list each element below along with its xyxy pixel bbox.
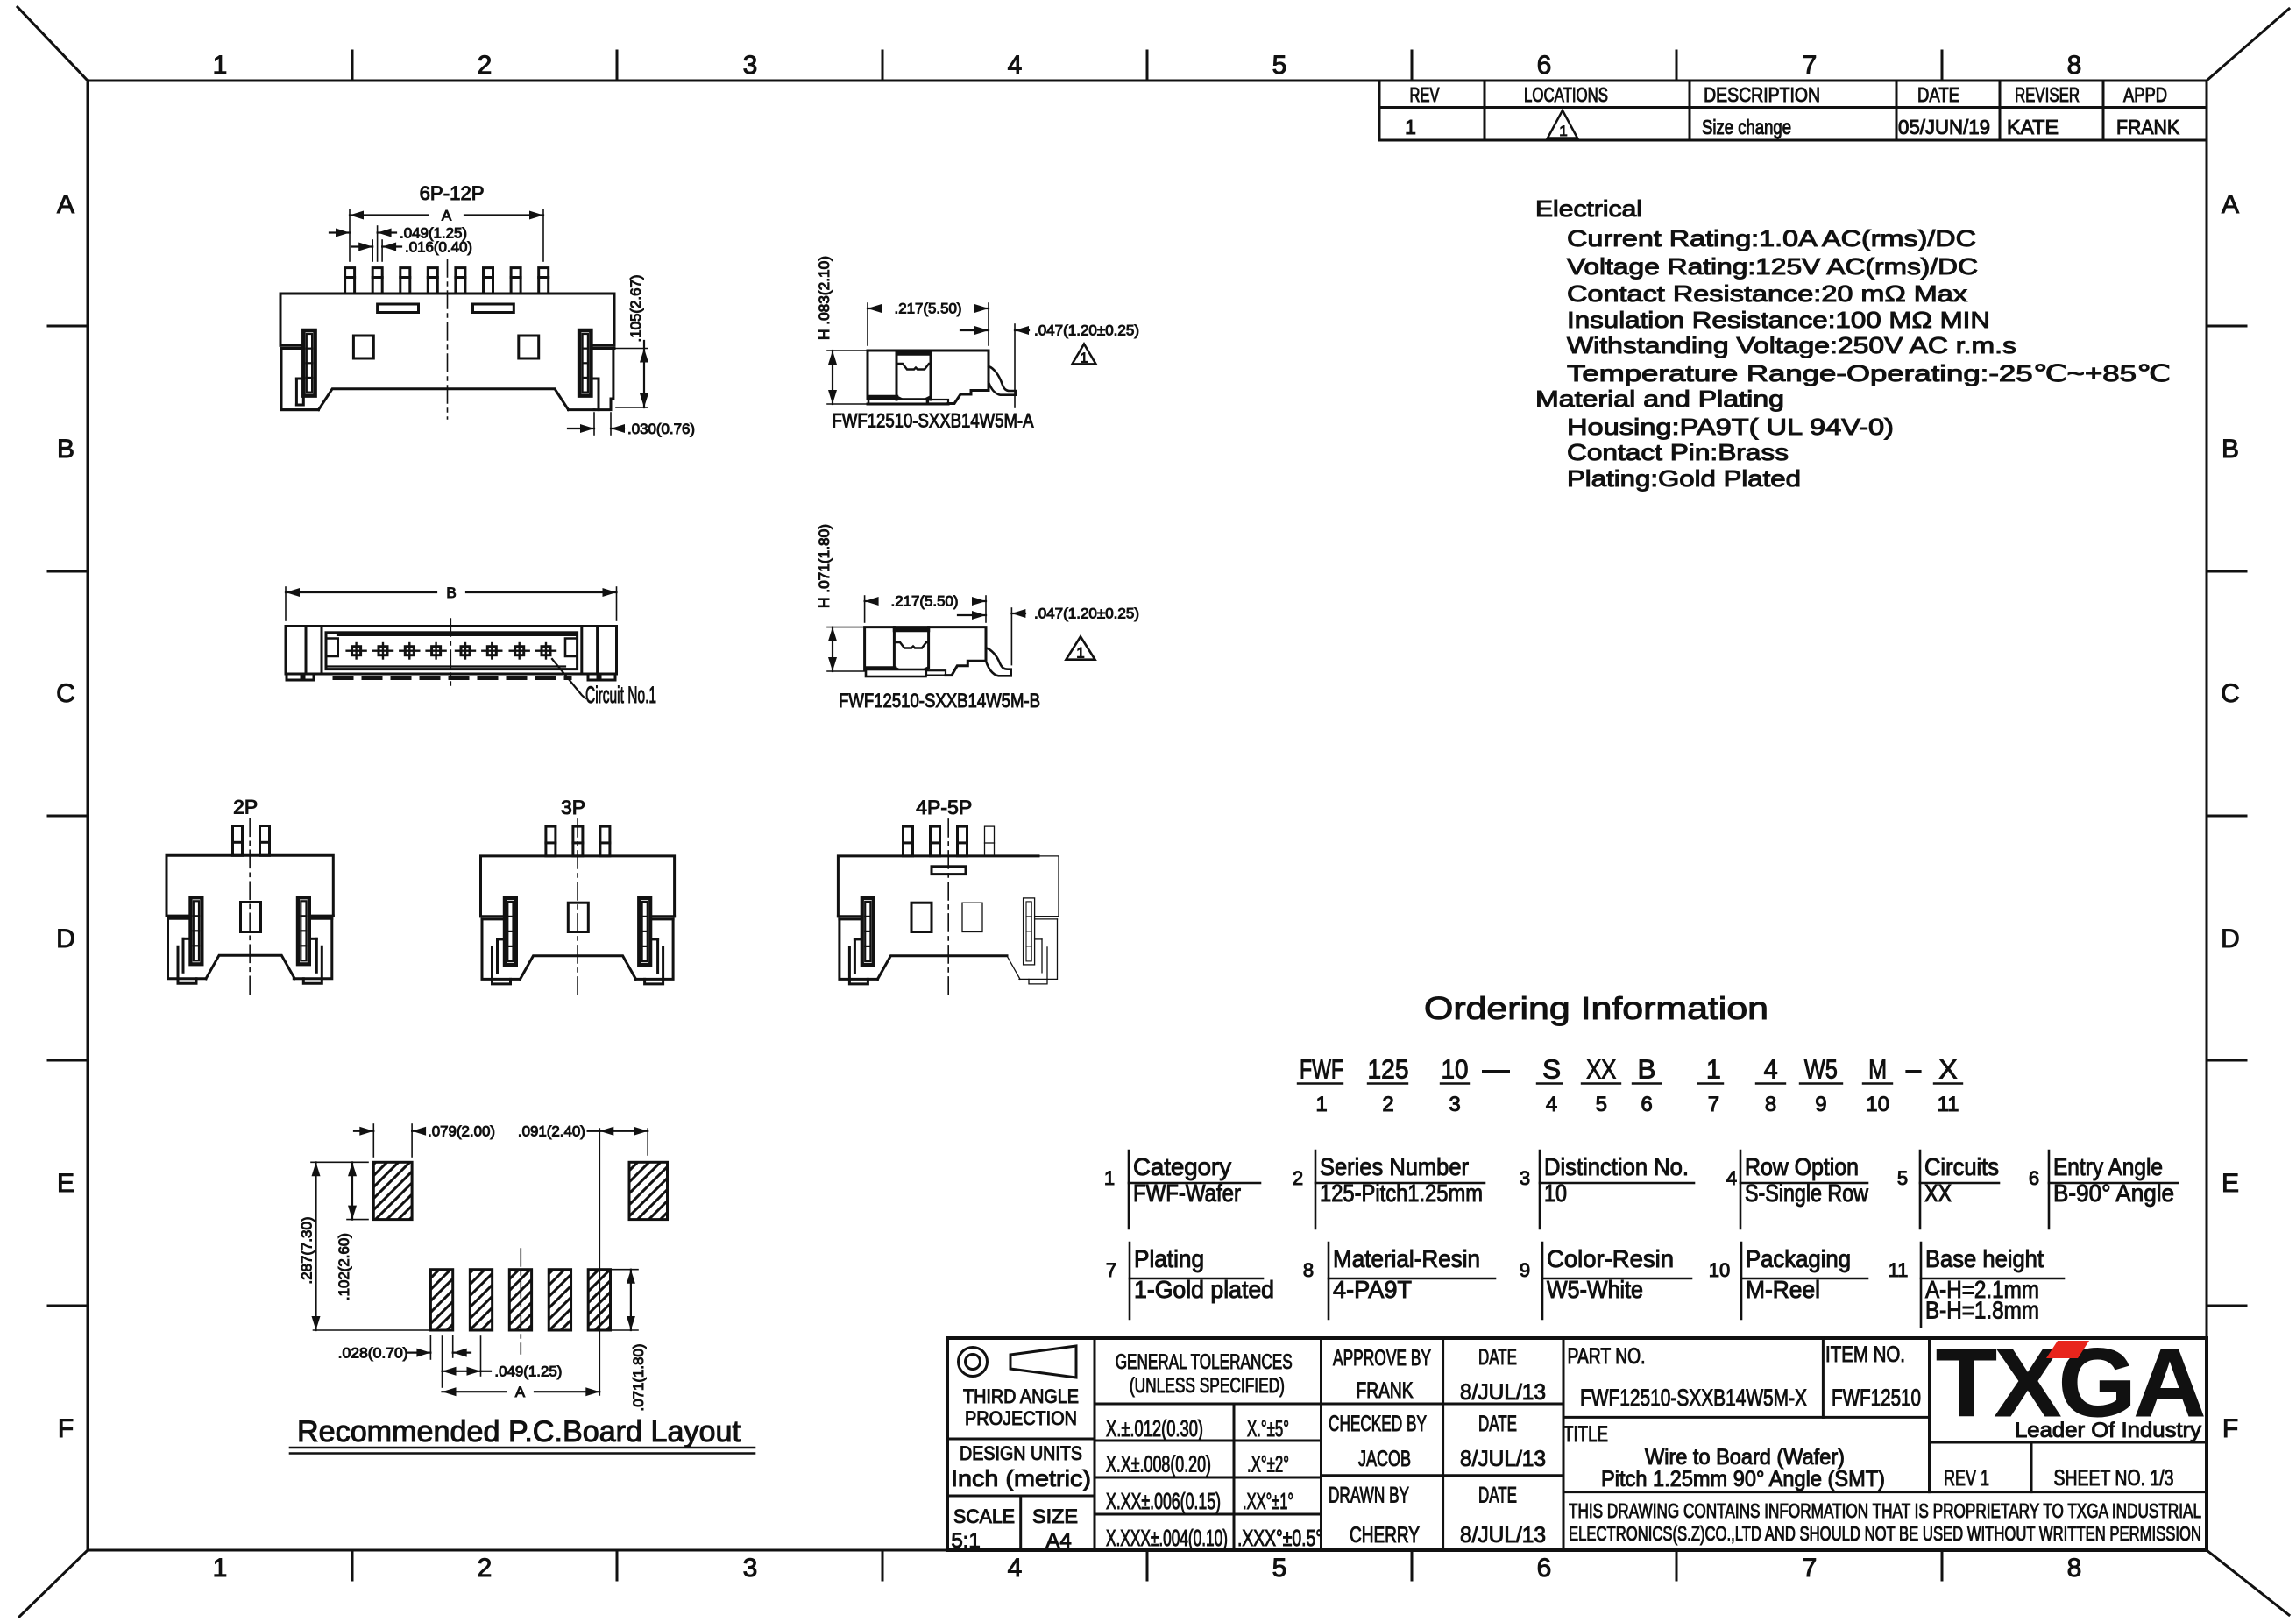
front view 4P-5P right latch strip	[1024, 898, 1035, 965]
side view A body outline	[868, 351, 989, 400]
svg-text:DATE: DATE	[1478, 1412, 1517, 1436]
svg-text:Contact Resistance:20 mΩ Max: Contact Resistance:20 mΩ Max	[1567, 280, 1967, 307]
front view right latch strip	[579, 330, 591, 396]
svg-text:FWF12510-SXXB14W5M-A: FWF12510-SXXB14W5M-A	[833, 410, 1034, 432]
svg-text:10: 10	[1544, 1179, 1567, 1207]
front view 4P-5P pin 1	[904, 826, 913, 856]
pcb layout small pad 2	[470, 1270, 492, 1330]
corner diagonal top-left	[18, 7, 88, 81]
svg-text:TITLE: TITLE	[1563, 1422, 1608, 1447]
svg-text:—: —	[1483, 1054, 1510, 1085]
svg-text:X.X±.008(0.20): X.X±.008(0.20)	[1106, 1450, 1211, 1477]
front view 4P-5P bottom trapezoid	[877, 956, 1007, 980]
svg-text:7: 7	[1708, 1093, 1719, 1116]
svg-text:(UNLESS SPECIFIED): (UNLESS SPECIFIED)	[1130, 1374, 1285, 1398]
svg-text:C: C	[2221, 679, 2240, 708]
zone ticks bottom	[351, 1550, 354, 1580]
svg-text:KATE: KATE	[2007, 116, 2059, 138]
svg-text:.016(0.40): .016(0.40)	[405, 239, 472, 256]
side view B warning triangle 1	[1067, 637, 1095, 660]
svg-text:B: B	[57, 435, 74, 464]
svg-text:Ordering Information: Ordering Information	[1424, 990, 1768, 1026]
svg-text:B: B	[1638, 1054, 1656, 1085]
front view 3P left lower block	[482, 919, 521, 980]
svg-text:.030(0.76): .030(0.76)	[627, 421, 695, 437]
svg-text:Packaging: Packaging	[1746, 1245, 1851, 1272]
bottom view B dim extensions	[285, 587, 287, 620]
svg-text:05/JUN/19: 05/JUN/19	[1898, 116, 1990, 138]
svg-text:A: A	[442, 208, 452, 224]
front view 2P left lower block	[168, 918, 207, 979]
front view 4P-5P body outline	[838, 856, 1038, 917]
svg-text:8/JUL/13: 8/JUL/13	[1460, 1523, 1546, 1548]
svg-text:DATE: DATE	[1478, 1484, 1517, 1508]
front view 2P pin 1	[233, 826, 243, 856]
pin 7	[511, 268, 521, 294]
svg-text:–: –	[1906, 1054, 1922, 1085]
svg-text:10: 10	[1866, 1093, 1889, 1116]
svg-text:.217(5.50): .217(5.50)	[891, 593, 959, 610]
title block horizontal dividers	[1095, 1403, 1563, 1406]
side view B dim .217(5.50)	[865, 600, 876, 602]
pcb dim .071(1.80)	[611, 1269, 638, 1271]
svg-text:Current Rating:1.0A AC(rms)/DC: Current Rating:1.0A AC(rms)/DC	[1567, 225, 1976, 251]
pin 3	[400, 268, 410, 294]
svg-text:2P: 2P	[233, 796, 258, 818]
svg-text:Leader Of Industry: Leader Of Industry	[2015, 1419, 2201, 1442]
side view B dim second arrow	[958, 614, 986, 616]
front view 3P square hole	[568, 903, 588, 931]
svg-text:SHEET NO. 1/3: SHEET NO. 1/3	[2054, 1466, 2174, 1491]
pcb dim .102(2.60)	[347, 1219, 368, 1221]
front view 3P pin 1	[546, 826, 556, 856]
svg-text:C: C	[56, 679, 75, 708]
front view left latch strip	[303, 330, 315, 396]
svg-text:1: 1	[1104, 1167, 1115, 1189]
svg-text:E: E	[2222, 1169, 2239, 1198]
circuit pin 3 cross	[405, 647, 414, 655]
front view 3P right latch strip	[639, 898, 650, 965]
svg-text:1: 1	[1076, 645, 1084, 662]
svg-text:M: M	[1868, 1054, 1887, 1085]
front view body outline	[280, 294, 614, 345]
svg-text:125: 125	[1368, 1054, 1409, 1085]
pcb layout small pad 1	[430, 1270, 452, 1330]
svg-text:FRANK: FRANK	[1357, 1378, 1414, 1403]
svg-text:Housing:PA9T( UL 94V-0): Housing:PA9T( UL 94V-0)	[1567, 414, 1894, 440]
front view 2P body outline	[167, 855, 333, 916]
svg-text:DATE: DATE	[1917, 83, 1959, 106]
svg-text:D: D	[2221, 924, 2240, 953]
svg-text:11: 11	[1938, 1093, 1959, 1116]
svg-text:1: 1	[1081, 351, 1088, 366]
svg-text:W5: W5	[1804, 1054, 1838, 1085]
svg-text:7: 7	[1803, 1554, 1818, 1583]
svg-text:5: 5	[1596, 1093, 1607, 1116]
front view 3P centerline	[577, 819, 578, 996]
svg-text:H .083(2.10): H .083(2.10)	[816, 256, 833, 340]
front view 4P-5P square hole	[911, 903, 932, 931]
svg-text:Plating:Gold Plated: Plating:Gold Plated	[1567, 465, 1801, 492]
svg-text:XX: XX	[1924, 1179, 1952, 1207]
side view A dim H .083(2.10)	[827, 350, 868, 351]
pcb layout centerline	[520, 1249, 521, 1354]
front view 2P right lower block	[294, 918, 332, 979]
front view 2P ledge lines	[167, 915, 190, 917]
svg-text:FWF12510: FWF12510	[1832, 1385, 1921, 1411]
side view A dim .047(1.20±0.25)	[1014, 324, 1016, 407]
svg-text:10: 10	[1709, 1259, 1730, 1281]
dimension .030(0.76) extensions	[593, 413, 595, 435]
side view A dim .217(5.50) extensions	[867, 303, 868, 345]
svg-text:FWF-Wafer: FWF-Wafer	[1133, 1179, 1241, 1207]
svg-text:4: 4	[1546, 1093, 1557, 1116]
svg-text:REV 1: REV 1	[1944, 1466, 1989, 1491]
bottom view B circuit leader	[552, 659, 585, 698]
svg-text:A: A	[57, 190, 74, 219]
svg-text:DESCRIPTION: DESCRIPTION	[1704, 83, 1820, 106]
front view 4P-5P centerline	[947, 819, 949, 996]
dimension .049(1.25) extension	[377, 226, 379, 261]
side view B bent lead	[986, 648, 1011, 676]
front view 2P right latch strip	[298, 897, 309, 964]
zone ticks right	[2207, 325, 2246, 328]
svg-text:FWF12510-SXXB14W5M-B: FWF12510-SXXB14W5M-B	[839, 690, 1040, 712]
bottom view B outer body	[286, 627, 617, 675]
svg-text:FWF: FWF	[1300, 1054, 1343, 1085]
svg-text:4: 4	[1008, 51, 1023, 80]
svg-text:8/JUL/13: 8/JUL/13	[1460, 1380, 1546, 1405]
bottom view B feet	[287, 674, 301, 680]
svg-text:X.±.012(0.30): X.±.012(0.30)	[1106, 1415, 1203, 1441]
svg-text:Material-Resin: Material-Resin	[1333, 1245, 1480, 1272]
svg-text:6: 6	[1537, 1554, 1552, 1583]
side view A dim .217(5.50)	[868, 308, 880, 309]
svg-text:10: 10	[1442, 1054, 1469, 1085]
svg-text:.287(7.30): .287(7.30)	[299, 1217, 315, 1285]
dimension A	[350, 214, 428, 216]
svg-text:Wire to Board (Wafer): Wire to Board (Wafer)	[1645, 1445, 1845, 1470]
svg-text:.091(2.40): .091(2.40)	[518, 1123, 585, 1140]
front view 4P-5P left latch strip	[862, 898, 874, 965]
svg-text:ITEM NO.: ITEM NO.	[1825, 1342, 1905, 1367]
pcb dim .079(2.00)	[354, 1130, 373, 1132]
svg-text:1: 1	[213, 51, 228, 80]
svg-text:A4: A4	[1045, 1529, 1071, 1553]
svg-text:Color-Resin: Color-Resin	[1547, 1245, 1674, 1272]
svg-text:DESIGN UNITS: DESIGN UNITS	[960, 1442, 1082, 1464]
svg-text:CHERRY: CHERRY	[1350, 1523, 1420, 1548]
svg-text:8/JUL/13: 8/JUL/13	[1460, 1447, 1546, 1471]
svg-text:APPROVE BY: APPROVE BY	[1333, 1346, 1431, 1371]
pcb dim .049(1.25)	[442, 1336, 443, 1387]
svg-text:PROJECTION: PROJECTION	[965, 1407, 1077, 1429]
svg-text:.047(1.20±0.25): .047(1.20±0.25)	[1034, 322, 1139, 339]
circuit pin 8 cross	[542, 647, 550, 655]
corner diagonal bottom-left	[19, 1550, 88, 1617]
svg-text:Base height: Base height	[1925, 1245, 2044, 1272]
svg-text:PART NO.: PART NO.	[1568, 1344, 1646, 1369]
front view right lower block	[611, 349, 613, 400]
front view 3P pin 2	[573, 826, 583, 856]
corner diagonal bottom-right	[2207, 1550, 2289, 1615]
svg-text:.X°±2°: .X°±2°	[1247, 1450, 1289, 1477]
pcb layout small pad 4	[549, 1270, 570, 1330]
svg-text:DRAWN BY: DRAWN BY	[1329, 1484, 1409, 1508]
svg-text:5: 5	[1272, 1554, 1287, 1583]
svg-text:SIZE: SIZE	[1032, 1505, 1078, 1527]
svg-text:Insulation Resistance:100 MΩ M: Insulation Resistance:100 MΩ MIN	[1567, 307, 1990, 333]
svg-text:Circuits: Circuits	[1924, 1153, 1999, 1180]
front view 3P left latch strip	[505, 898, 516, 965]
circuit pin 5 cross	[461, 647, 470, 655]
pin 5	[456, 268, 465, 294]
svg-text:7: 7	[1106, 1259, 1116, 1281]
bottom view B cavity right step	[565, 639, 578, 657]
side view B dim .217(5.50) extensions	[864, 596, 866, 622]
pcb dim .287(7.30)	[311, 1161, 368, 1163]
svg-text:2: 2	[478, 1554, 493, 1583]
svg-text:M-Reel: M-Reel	[1746, 1276, 1820, 1303]
svg-text:.071(1.80): .071(1.80)	[630, 1344, 647, 1412]
svg-text:.217(5.50): .217(5.50)	[895, 301, 962, 317]
svg-text:FWF12510-SXXB14W5M-X: FWF12510-SXXB14W5M-X	[1580, 1385, 1807, 1411]
svg-text:4: 4	[1726, 1167, 1737, 1189]
svg-text:X.XXX±.004(0.10): X.XXX±.004(0.10)	[1106, 1525, 1228, 1551]
svg-text:.079(2.00): .079(2.00)	[428, 1123, 495, 1140]
svg-text:4: 4	[1008, 1554, 1023, 1583]
dimension .105(2.67) extensions	[616, 348, 648, 350]
bottom view B bottom dashed strip	[335, 676, 570, 680]
svg-text:Size change: Size change	[1702, 116, 1791, 138]
circuit pin 7 cross	[515, 647, 524, 655]
corner diagonal top-right	[2207, 9, 2289, 81]
front view 4P-5P right lower block	[1019, 919, 1058, 980]
third angle projection symbol cone	[1010, 1346, 1076, 1378]
dimension .030(0.76)	[568, 428, 594, 429]
front view left lower block	[281, 349, 319, 410]
svg-text:Voltage Rating:125V AC(rms)/DC: Voltage Rating:125V AC(rms)/DC	[1567, 253, 1978, 280]
zone ticks top	[351, 51, 354, 81]
pin 6	[484, 268, 493, 294]
front view 3P body outline	[481, 856, 675, 917]
svg-text:A: A	[2222, 190, 2239, 219]
front view 2P square hole	[241, 903, 261, 932]
svg-text:.XXX°±0.5°: .XXX°±0.5°	[1237, 1525, 1322, 1551]
svg-text:Withstanding Voltage:250V AC r: Withstanding Voltage:250V AC r.m.s	[1567, 332, 2016, 358]
third angle projection symbol circle	[959, 1348, 988, 1377]
bottom view B cavity	[326, 633, 578, 669]
side view A terminal cavity	[896, 351, 898, 400]
side view B body outline	[865, 627, 986, 669]
svg-text:Electrical: Electrical	[1535, 195, 1642, 222]
svg-text:3: 3	[1449, 1093, 1460, 1116]
svg-text:1: 1	[1706, 1054, 1721, 1085]
front view 4P-5P pin 3	[958, 826, 967, 856]
svg-text:F: F	[2222, 1414, 2238, 1443]
dimension .016(0.40)	[352, 245, 372, 247]
svg-text:E: E	[57, 1169, 74, 1198]
svg-text:B-H=1.8mm: B-H=1.8mm	[1925, 1297, 2039, 1324]
pcb layout right big pad	[629, 1162, 668, 1219]
front view 3P pin 3	[600, 826, 610, 856]
revision row 1 - location warning triangle 1	[1548, 110, 1577, 138]
svg-text:THIRD ANGLE: THIRD ANGLE	[963, 1385, 1079, 1407]
svg-text:3P: 3P	[561, 797, 585, 818]
front view 2P centerline	[249, 818, 251, 995]
front view top slot right	[473, 304, 514, 313]
svg-text:SCALE: SCALE	[953, 1505, 1015, 1527]
svg-text:2: 2	[1293, 1167, 1303, 1189]
svg-text:Entry Angle: Entry Angle	[2053, 1153, 2163, 1180]
title block vertical dividers	[1094, 1338, 1096, 1550]
circuit pin 6 cross	[487, 647, 496, 655]
svg-text:8: 8	[2067, 51, 2082, 80]
svg-text:2: 2	[478, 51, 493, 80]
svg-text:3: 3	[743, 51, 758, 80]
pcb layout small pad 5	[588, 1270, 610, 1330]
svg-text:REV: REV	[1410, 83, 1440, 106]
pin 8	[539, 268, 549, 294]
svg-text:GENERAL TOLERANCES: GENERAL TOLERANCES	[1116, 1350, 1293, 1374]
svg-text:1: 1	[1405, 116, 1416, 138]
svg-text:8: 8	[1765, 1093, 1776, 1116]
svg-text:F: F	[58, 1414, 74, 1443]
svg-text:Distinction No.: Distinction No.	[1544, 1153, 1689, 1180]
title block outer frame	[947, 1338, 2207, 1550]
front view 4P-5P left lower block	[840, 919, 878, 980]
svg-text:.105(2.67): .105(2.67)	[627, 275, 644, 343]
svg-text:Plating: Plating	[1134, 1245, 1204, 1272]
svg-text:1: 1	[213, 1554, 228, 1583]
front view 2P pin 2	[260, 826, 270, 856]
svg-text:THIS DRAWING CONTAINS INFORMAT: THIS DRAWING CONTAINS INFORMATION THAT I…	[1569, 1499, 2201, 1522]
svg-text:4-PA9T: 4-PA9T	[1333, 1276, 1412, 1303]
svg-text:REVISER: REVISER	[2015, 83, 2080, 106]
svg-text:Pitch 1.25mm 90° Angle (SMT): Pitch 1.25mm 90° Angle (SMT)	[1601, 1467, 1885, 1491]
svg-text:4P-5P: 4P-5P	[916, 797, 972, 818]
dimension .016(0.40) extensions	[372, 240, 373, 261]
svg-text:Inch (metric): Inch (metric)	[951, 1465, 1091, 1491]
pin 4	[428, 268, 437, 294]
svg-text:Circuit No.1: Circuit No.1	[585, 682, 656, 708]
svg-text:5: 5	[1272, 51, 1287, 80]
svg-text:D: D	[56, 924, 75, 953]
svg-text:H .071(1.80): H .071(1.80)	[816, 524, 833, 608]
side view B dim H .071(1.80)	[827, 627, 865, 628]
svg-text:A: A	[515, 1384, 526, 1400]
circuit pin 1 cross	[352, 647, 361, 655]
svg-text:125-Pitch1.25mm: 125-Pitch1.25mm	[1320, 1179, 1483, 1207]
side view A warning triangle 1	[1073, 344, 1096, 365]
side view A solder pad	[868, 395, 896, 400]
svg-text:9: 9	[1815, 1093, 1826, 1116]
bottom view B centerline	[450, 619, 451, 685]
pcb layout title underline	[290, 1447, 755, 1449]
svg-text:DATE: DATE	[1478, 1345, 1517, 1370]
svg-text:S: S	[1542, 1054, 1561, 1085]
dimension A extension lines	[349, 209, 351, 261]
svg-text:FRANK: FRANK	[2116, 116, 2180, 138]
svg-text:4: 4	[1764, 1054, 1778, 1085]
bottom view B cavity left step	[326, 639, 338, 657]
front view square hole left	[353, 336, 373, 358]
svg-text:Material and Plating: Material and Plating	[1535, 386, 1784, 412]
dimension .049(1.25)	[330, 231, 350, 233]
side view B dim .047(1.20±0.25)	[1010, 608, 1012, 665]
svg-text:3: 3	[743, 1554, 758, 1583]
svg-text:Category: Category	[1133, 1153, 1231, 1180]
front view 4P-5P pin 2	[931, 826, 940, 856]
svg-text:6P-12P: 6P-12P	[420, 182, 485, 204]
front view ledge lines	[280, 344, 303, 347]
circuit pin 4 cross	[432, 647, 441, 655]
svg-text:ELECTRONICS(S.Z)CO.,LTD AND SH: ELECTRONICS(S.Z)CO.,LTD AND SHOULD NOT B…	[1569, 1522, 2201, 1545]
svg-text:B-90° Angle: B-90° Angle	[2053, 1179, 2174, 1207]
svg-text:Row Option: Row Option	[1745, 1153, 1859, 1180]
svg-text:X: X	[1939, 1054, 1958, 1085]
zone ticks left	[48, 325, 88, 328]
svg-text:X.°±5°: X.°±5°	[1247, 1415, 1289, 1441]
svg-text:6: 6	[1537, 51, 1552, 80]
svg-text:1: 1	[1315, 1093, 1327, 1116]
svg-text:JACOB: JACOB	[1358, 1447, 1411, 1471]
dimension .105(2.67)	[643, 341, 645, 407]
svg-text:5:1: 5:1	[951, 1529, 980, 1553]
front view bottom trapezoid	[319, 389, 569, 410]
svg-text:B: B	[446, 584, 456, 601]
front view 3P right lower block	[635, 919, 674, 980]
front view 2P left latch strip	[190, 897, 202, 964]
svg-text:APPD: APPD	[2123, 83, 2167, 106]
front view 3P bottom trapezoid	[521, 956, 636, 980]
pcb layout left big pad	[373, 1162, 412, 1219]
svg-text:9: 9	[1520, 1259, 1530, 1281]
pin 2	[372, 268, 382, 294]
front view 4P-5P phantom 5P extension	[985, 826, 995, 856]
front view 2P bottom trapezoid	[206, 955, 294, 979]
svg-text:.028(0.70): .028(0.70)	[338, 1345, 408, 1362]
svg-text:.049(1.25): .049(1.25)	[494, 1363, 562, 1380]
svg-text:Recommended P.C.Board Layout: Recommended P.C.Board Layout	[297, 1415, 741, 1448]
svg-text:8: 8	[2067, 1554, 2082, 1583]
svg-text:5: 5	[1897, 1167, 1908, 1189]
pin 1	[345, 268, 355, 294]
front view 3P ledge lines	[481, 915, 505, 917]
svg-text:3: 3	[1520, 1167, 1530, 1189]
svg-text:Contact Pin:Brass: Contact Pin:Brass	[1567, 439, 1789, 465]
svg-text:2: 2	[1382, 1093, 1393, 1116]
side view A dim second arrow	[960, 329, 989, 331]
svg-text:X.XX±.006(0.15): X.XX±.006(0.15)	[1106, 1488, 1221, 1514]
svg-text:8: 8	[1303, 1259, 1314, 1281]
front view square hole right	[519, 336, 539, 358]
svg-text:Series Number: Series Number	[1320, 1153, 1469, 1180]
svg-text:S-Single Row: S-Single Row	[1745, 1179, 1869, 1207]
svg-text:6: 6	[1641, 1093, 1652, 1116]
pcb layout small pad 3	[509, 1270, 531, 1330]
front view top slot left	[378, 304, 419, 313]
svg-text:.XX°±1°: .XX°±1°	[1243, 1488, 1293, 1514]
svg-text:.047(1.20±0.25): .047(1.20±0.25)	[1034, 606, 1139, 622]
svg-text:Temperature Range-Operating:-2: Temperature Range-Operating:-25℃~+85℃	[1567, 360, 2171, 386]
svg-text:CHECKED BY: CHECKED BY	[1329, 1412, 1427, 1436]
svg-text:11: 11	[1889, 1259, 1909, 1281]
svg-text:B: B	[2222, 435, 2239, 464]
revision table grid	[1378, 81, 1381, 140]
dimension B	[286, 591, 436, 593]
side view B solder pad	[866, 666, 895, 670]
